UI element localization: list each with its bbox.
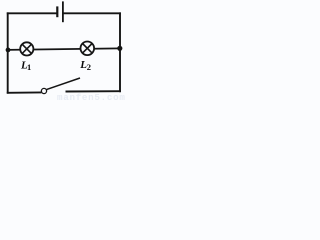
wire: middle branch: [7, 48, 120, 50]
wire: bottom right segment: [66, 90, 121, 92]
lamp L2: [81, 42, 95, 56]
svg-text:2: 2: [87, 62, 91, 72]
background: [0, 0, 129, 101]
wire: top right segment: [64, 12, 121, 14]
lamp L1: [20, 42, 33, 55]
switch S lever (open): [46, 78, 80, 90]
svg-text:1: 1: [27, 62, 31, 72]
wire: right edge: [119, 12, 121, 92]
switch S pivot circle: [41, 88, 46, 93]
svg-text:manfen5.com: manfen5.com: [57, 92, 126, 101]
wire: top left segment: [7, 12, 57, 14]
battery cell: long plate (positive): [62, 1, 64, 22]
node: right junction dot: [117, 46, 122, 51]
wire: bottom left segment: [7, 91, 42, 93]
battery cell: short plate (negative): [56, 6, 58, 17]
wire: left edge: [7, 12, 9, 93]
node: left junction dot: [6, 48, 11, 53]
